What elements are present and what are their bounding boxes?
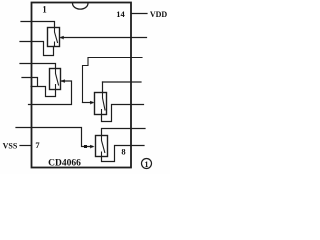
wire pin 1 xyxy=(21,22,55,28)
switch U1c box xyxy=(95,93,107,115)
arrow into U1c xyxy=(83,102,93,104)
arrowhead into U1a xyxy=(60,36,64,39)
switch U1d box xyxy=(96,136,108,157)
figure number circle 1 xyxy=(142,159,152,169)
wire pin 3 xyxy=(20,64,56,69)
svg-text:1: 1 xyxy=(145,160,149,169)
svg-text:7: 7 xyxy=(35,140,40,150)
notch xyxy=(73,3,89,9)
arrow into U1d xyxy=(90,145,94,148)
wire U1c control riser xyxy=(83,58,143,103)
svg-text:VDD: VDD xyxy=(150,10,168,19)
wire pin 11 to U1c input xyxy=(103,81,142,83)
wire pin 4 staircase xyxy=(22,78,56,97)
wire pin 12 control xyxy=(29,81,72,105)
svg-text:14: 14 xyxy=(116,9,125,19)
switch U1d blade xyxy=(102,136,105,157)
IC body CD4066 xyxy=(32,3,132,168)
arrowhead into U1b xyxy=(61,80,65,83)
wire pin 6 control to U1d xyxy=(16,128,93,147)
svg-text:1: 1 xyxy=(42,5,47,15)
switch U1a blade xyxy=(55,28,58,47)
junction dot on U1d control xyxy=(84,145,87,148)
wire pin 9 to U1d input xyxy=(102,129,146,136)
wire VSS pin 7 xyxy=(20,145,32,147)
wire U1c output to pin 10 xyxy=(102,105,144,122)
wire VDD stub pin 14 xyxy=(131,13,147,15)
wire pin 13 control xyxy=(61,37,147,39)
wire pin 2 xyxy=(20,42,54,56)
switch U1c blade xyxy=(102,93,106,115)
switch U1a box xyxy=(48,28,60,47)
switch U1b box xyxy=(50,69,61,90)
switch U1b blade xyxy=(56,69,59,90)
svg-text:VSS: VSS xyxy=(3,142,18,151)
wire U1d output to pin 8 xyxy=(102,146,145,162)
svg-text:CD4066: CD4066 xyxy=(48,159,81,169)
svg-text:8: 8 xyxy=(121,147,125,157)
